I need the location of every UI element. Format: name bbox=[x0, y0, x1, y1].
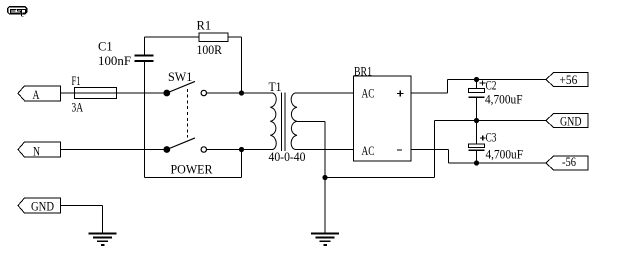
svg-text:GND: GND bbox=[31, 200, 54, 214]
svg-text:AC: AC bbox=[362, 86, 375, 100]
svg-text:100R: 100R bbox=[197, 43, 223, 57]
svg-text:GND: GND bbox=[560, 114, 582, 128]
svg-text:4,700uF: 4,700uF bbox=[485, 93, 523, 107]
svg-text:AC: AC bbox=[362, 144, 375, 158]
svg-text:T1: T1 bbox=[269, 80, 282, 94]
svg-text:C1: C1 bbox=[98, 40, 113, 54]
svg-text:C3: C3 bbox=[486, 131, 497, 145]
svg-text:POWER: POWER bbox=[171, 163, 214, 177]
svg-text:A: A bbox=[33, 88, 40, 102]
svg-text:C2: C2 bbox=[486, 78, 497, 92]
svg-text:N: N bbox=[33, 144, 40, 158]
svg-text:F1: F1 bbox=[72, 74, 81, 88]
svg-text:R1: R1 bbox=[197, 19, 212, 33]
svg-text:-56: -56 bbox=[562, 155, 576, 169]
svg-text:SW1: SW1 bbox=[168, 70, 192, 84]
svg-text:4,700uF: 4,700uF bbox=[486, 147, 524, 161]
svg-text:100nF: 100nF bbox=[98, 54, 131, 68]
svg-text:BR1: BR1 bbox=[354, 65, 372, 79]
svg-text:3A: 3A bbox=[72, 101, 84, 115]
svg-text:+56: +56 bbox=[560, 73, 578, 87]
svg-text:40-0-40: 40-0-40 bbox=[269, 150, 306, 164]
